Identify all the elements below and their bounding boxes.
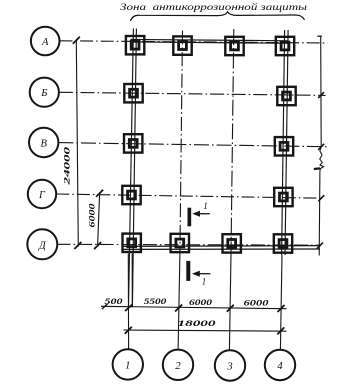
section mark lower: arrow: [199, 273, 211, 275]
svg-text:6000: 6000: [189, 298, 213, 307]
tick 18000 left: [125, 327, 132, 334]
column B4: [277, 87, 295, 105]
svg-text:6000: 6000: [244, 298, 270, 307]
axis circle 3: [215, 350, 245, 380]
axis line Г: [56, 194, 323, 198]
column G1: [122, 186, 140, 204]
svg-text:6000: 6000: [87, 203, 97, 228]
dimension line 6000 (vertical): [98, 193, 100, 246]
tick at dim start: [102, 304, 108, 309]
section mark upper: bar: [188, 208, 192, 227]
tick on break line at Д: [317, 243, 323, 249]
tick axis3: [227, 305, 234, 312]
axis 4 leader below: [280, 255, 282, 350]
tick on break line at Г: [318, 195, 324, 201]
svg-text:500: 500: [105, 297, 124, 306]
tick on break line at Б: [318, 92, 324, 98]
svg-text:В: В: [40, 139, 47, 150]
right wall beam pair: [282, 30, 285, 255]
axis line Д: [57, 243, 322, 246]
svg-text:1: 1: [202, 277, 207, 287]
dimension line 24000 (vertical): [76, 40, 78, 247]
column D1: [123, 234, 141, 252]
tick on break line at В: [318, 144, 324, 150]
brace under title: [131, 12, 305, 21]
axis 1 leader below (double): [127, 254, 129, 350]
bottom dimension line (500/5500/6000/6000): [101, 306, 287, 308]
column D4: [274, 234, 292, 252]
axis line А: [60, 41, 328, 43]
svg-text:5500: 5500: [144, 297, 168, 306]
axis circle Г: [28, 180, 56, 208]
column V1: [124, 134, 142, 152]
svg-text:18000: 18000: [178, 319, 217, 328]
axis 3 leader below: [229, 254, 231, 350]
svg-text:Д: Д: [38, 240, 47, 251]
break line thick dash: [314, 167, 320, 170]
axis line 2 (vertical): [180, 31, 183, 255]
axis circle 2: [163, 350, 193, 380]
axis 2 leader below: [178, 254, 180, 350]
dimension line 18000: [124, 330, 287, 331]
svg-text:24000: 24000: [62, 146, 72, 186]
tick 18000 right: [277, 327, 284, 334]
axis circle Д: [27, 229, 57, 259]
axis line Б: [59, 92, 326, 95]
svg-text:3: 3: [226, 362, 232, 373]
tick axis1: [125, 304, 133, 311]
svg-text:А: А: [41, 37, 49, 48]
svg-text:Г: Г: [38, 190, 46, 201]
svg-text:2: 2: [175, 361, 181, 372]
axis line 3 (vertical): [231, 29, 234, 254]
axis line В: [58, 143, 327, 147]
column D3: [223, 234, 241, 252]
section mark lower: bar: [186, 261, 190, 281]
column A3: [225, 37, 243, 55]
axis circle А: [31, 27, 60, 56]
column A1: [126, 36, 144, 54]
axis circle 1: [113, 349, 143, 379]
svg-text:Зона антикоррозионной защиты: Зона антикоррозионной защиты: [120, 2, 308, 13]
svg-text:1: 1: [125, 360, 130, 371]
tick at Г (6000): [96, 190, 103, 197]
axis circle В: [29, 128, 58, 157]
column D2: [171, 234, 189, 252]
top beam pair: [131, 39, 289, 40]
tick at А: [73, 37, 80, 44]
left wall beam pair: [129, 29, 134, 308]
svg-text:1: 1: [203, 201, 208, 211]
break line top cap: [317, 35, 322, 37]
bottom beam pair: [122, 245, 320, 248]
section mark upper: arrow: [199, 213, 210, 215]
right-side break line: [319, 36, 323, 256]
svg-text:Б: Б: [40, 88, 47, 99]
axis circle Б: [30, 78, 59, 107]
column A4: [276, 37, 294, 55]
tick axis4: [278, 305, 285, 312]
axis circle 4: [265, 350, 295, 380]
column G4: [274, 188, 292, 206]
column V4: [275, 137, 293, 155]
column A2: [173, 36, 191, 54]
svg-text:4: 4: [277, 361, 283, 372]
tick at Д (6000): [94, 242, 101, 249]
column B1: [124, 84, 142, 102]
tick axis2: [175, 305, 182, 312]
tick at Д (24000): [74, 242, 81, 249]
